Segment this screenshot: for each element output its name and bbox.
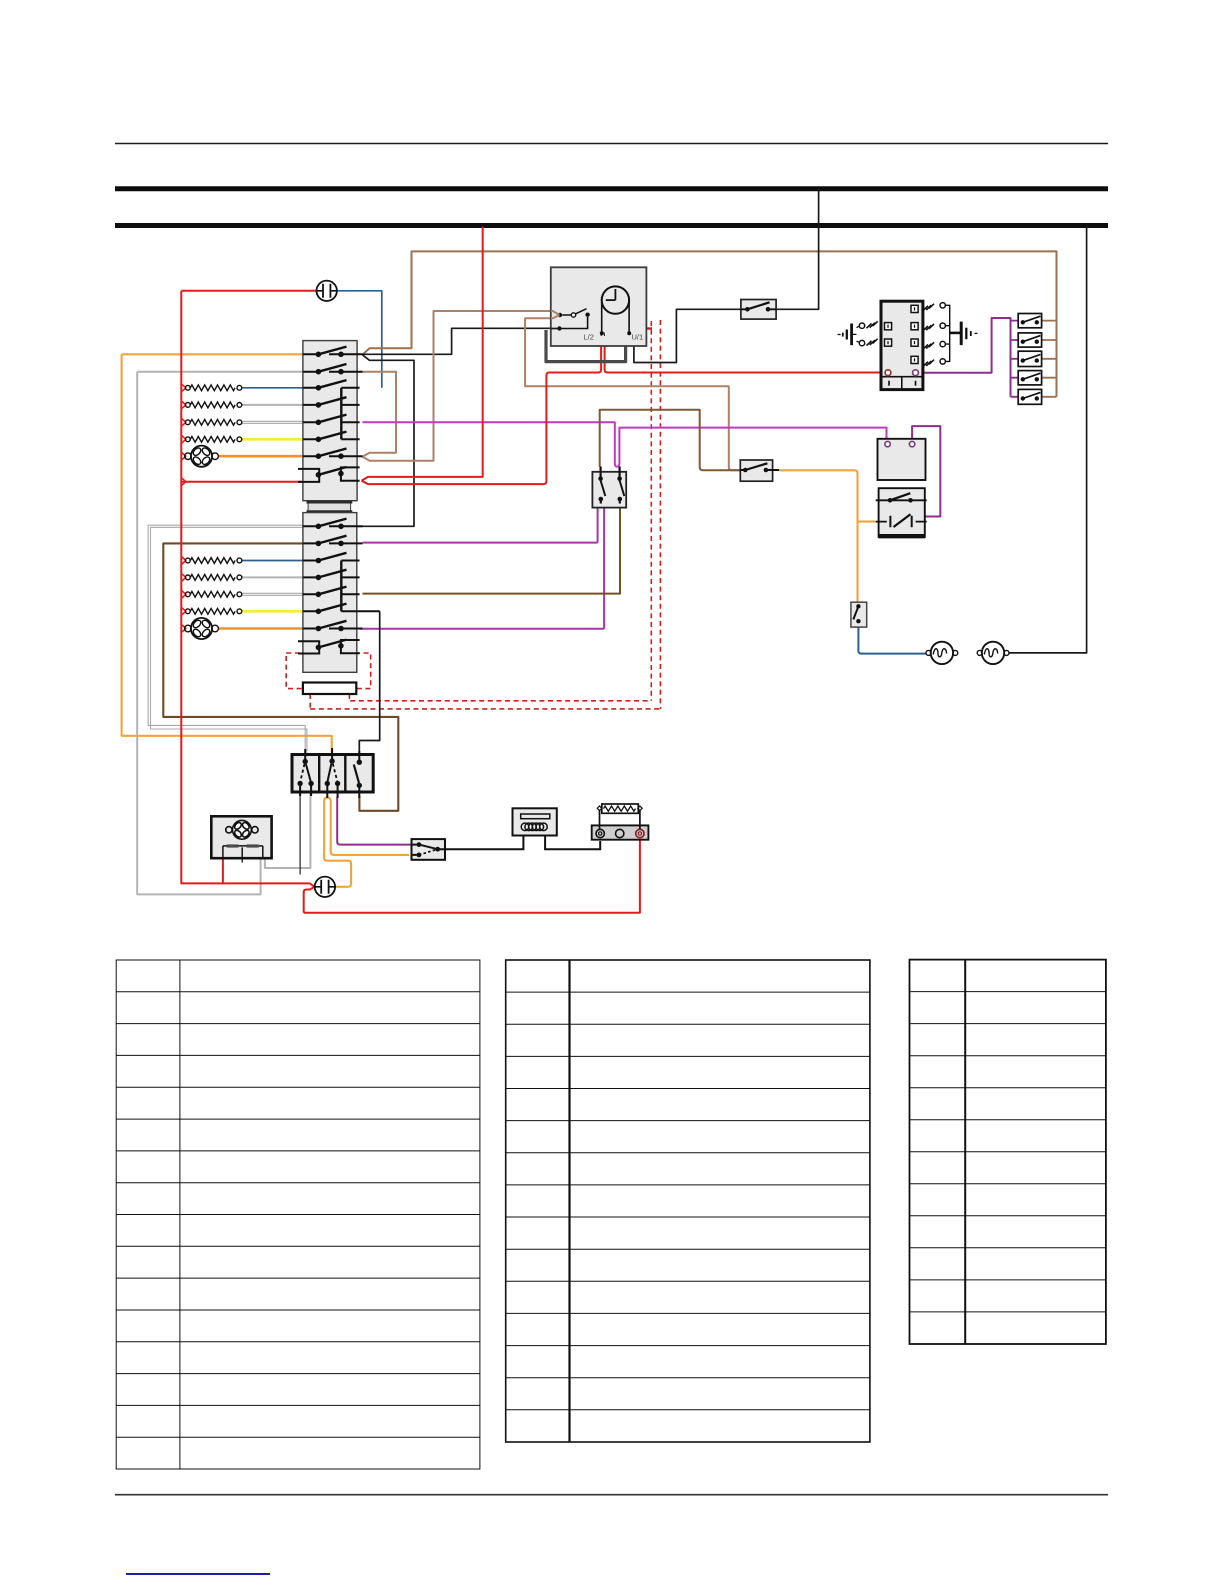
svg-text:U/1: U/1: [632, 333, 644, 342]
svg-text:L/2: L/2: [584, 333, 594, 342]
